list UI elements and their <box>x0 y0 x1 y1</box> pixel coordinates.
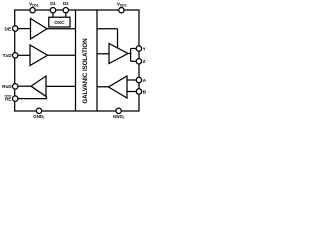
wire U4 output to junction <box>128 53 131 55</box>
wire DE pin to U1 input <box>18 28 31 30</box>
svg-text:RE: RE <box>5 96 12 102</box>
wire U3 output to RxD pin <box>18 85 32 87</box>
isolation barrier left edge <box>75 10 77 111</box>
pin RE <box>13 96 18 101</box>
wire U1 output to barrier <box>47 28 76 30</box>
svg-text:Y: Y <box>143 46 147 52</box>
isolation barrier right edge <box>96 10 98 111</box>
svg-text:RxD: RxD <box>2 84 12 90</box>
svg-text:TxD: TxD <box>3 53 13 59</box>
svg-text:Z: Z <box>143 59 146 65</box>
pin B <box>136 89 141 94</box>
svg-text:GND2: GND2 <box>113 114 125 120</box>
svg-text:OSC: OSC <box>54 20 65 26</box>
wire B pin to U5 input <box>127 91 137 93</box>
pin TxD <box>13 53 18 58</box>
wire Y/Z junction vertical <box>130 49 132 62</box>
oscillator OSC box <box>49 17 70 27</box>
svg-text:GALVANIC ISOLATION: GALVANIC ISOLATION <box>82 38 89 103</box>
wire junction to Y pin <box>131 48 137 50</box>
pin RxD <box>13 84 18 89</box>
svg-text:VDD2: VDD2 <box>117 2 127 8</box>
pin GND2 <box>116 108 121 113</box>
svg-text:A: A <box>143 78 147 84</box>
buffer U3 (RxD output buffer) <box>31 76 46 96</box>
pin Z <box>136 59 141 64</box>
svg-text:B: B <box>143 89 147 95</box>
wire RE riser to U3 enable <box>46 96 48 99</box>
svg-text:D1: D1 <box>50 1 56 6</box>
pin DE <box>13 26 18 31</box>
svg-text:VDD1: VDD1 <box>29 2 39 8</box>
wire barrier to U4 input <box>97 53 109 55</box>
wire U5 output to barrier <box>97 86 109 88</box>
IC body outline <box>15 10 139 111</box>
wire D1 pin to OSC <box>52 13 54 18</box>
pin VDD1 <box>30 8 35 13</box>
pin GND1 <box>36 108 41 113</box>
svg-text:GND1: GND1 <box>33 114 45 120</box>
svg-text:D2: D2 <box>63 1 69 6</box>
wire U2 output to barrier <box>48 54 76 56</box>
wire A pin to U5 input <box>127 79 137 81</box>
pin Y <box>136 46 141 51</box>
pin A <box>136 77 141 82</box>
driver U4 (bus driver) <box>109 44 128 64</box>
pin D1 <box>50 8 55 13</box>
buffer U1 (DE input buffer) <box>31 19 48 40</box>
wire DE enable from barrier <box>97 28 118 30</box>
receiver U5 (bus receiver) <box>109 76 128 98</box>
pin D2 <box>63 8 68 13</box>
svg-text:DE: DE <box>5 26 12 32</box>
pin VDD2 <box>119 8 124 13</box>
wire DE enable drop to U4 <box>117 29 119 49</box>
wire TxD pin to U2 input <box>18 54 31 56</box>
buffer U2 (TxD input buffer) <box>30 45 48 66</box>
wire junction to Z pin <box>131 60 137 62</box>
wire D2 pin to OSC <box>65 13 67 18</box>
overline of RE <box>5 95 12 97</box>
wire barrier to U3 input <box>46 85 76 87</box>
wire RE pin horizontal run <box>18 98 47 100</box>
